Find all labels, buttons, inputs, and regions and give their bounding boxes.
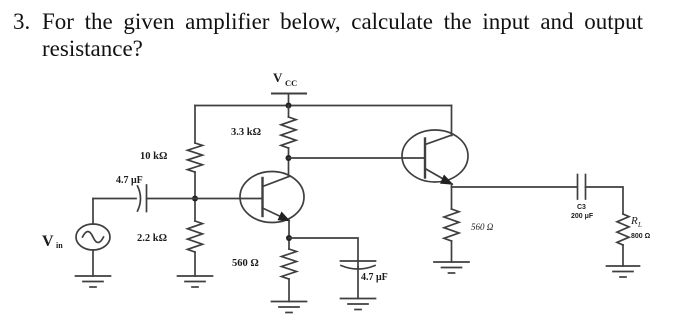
svg-text:L: L: [637, 221, 642, 229]
node: emitter junction dot: [286, 235, 292, 241]
wire rail to 3.3k: [288, 106, 290, 118]
svg-text:200 μF: 200 μF: [571, 213, 594, 220]
capacitor C1 4.7uF (input coupling): [138, 185, 147, 212]
sine wave inside Vin: [83, 232, 104, 243]
wire Vin bottom to ground: [92, 250, 94, 276]
ground (560 Q2): [434, 262, 469, 273]
resistor RL: [617, 214, 629, 245]
wire 10k to input junction to 2.2k: [194, 172, 196, 221]
wire 2.2k to ground: [194, 252, 196, 276]
svg-text:CC: CC: [285, 78, 297, 88]
ground (560 Q1): [272, 302, 307, 313]
transistor Q1: [240, 172, 304, 223]
ground (bypass cap): [341, 299, 376, 310]
wire RL to ground: [622, 245, 624, 266]
svg-text:R: R: [630, 215, 638, 227]
capacitor C2 4.7uF bypass: [341, 261, 376, 269]
resistor 2.2k: [188, 221, 203, 252]
resistor 10k: [188, 143, 203, 172]
wire emitter to bypass cap: [289, 238, 358, 261]
wire Q2 collector to rail: [451, 106, 453, 136]
wire cap to RL: [586, 187, 624, 214]
wire Q2 emitter down: [451, 184, 453, 209]
Vcc supply symbol: [272, 94, 306, 106]
label Vin: [42, 233, 63, 250]
Vcc label: [273, 70, 297, 88]
svg-text:C3: C3: [577, 204, 586, 211]
wire bypass cap to ground: [357, 267, 359, 299]
svg-text:3.3 kΩ: 3.3 kΩ: [231, 127, 261, 138]
ground (RL): [607, 266, 640, 277]
wire Q2 emitter to output cap: [452, 186, 578, 188]
node: input junction dot: [192, 196, 198, 202]
wire 560 Q2 to ground: [451, 241, 453, 262]
wire 560 to ground: [288, 279, 290, 302]
svg-text:560 Ω: 560 Ω: [232, 258, 259, 269]
wire rail to 10k: [194, 106, 196, 144]
node: collector junction dot: [286, 155, 292, 161]
ground (Vin): [76, 276, 111, 287]
resistor 560 (Q1 emitter): [282, 249, 297, 279]
wire Vin top: [92, 199, 94, 225]
svg-text:560 Ω: 560 Ω: [471, 222, 494, 232]
source Vin: [76, 224, 110, 250]
svg-text:in: in: [56, 241, 63, 250]
wire 3.3k to collector node: [288, 148, 290, 177]
wire capacitor to junction and Q1 base: [147, 198, 263, 200]
ground (2.2k): [178, 276, 213, 287]
svg-text:V: V: [273, 70, 283, 85]
svg-text:4.7 μF: 4.7 μF: [361, 272, 388, 283]
question text: [42, 9, 643, 63]
svg-text:4.7 μF: 4.7 μF: [116, 175, 143, 186]
svg-text:V: V: [42, 233, 54, 250]
svg-text:800 Ω: 800 Ω: [631, 233, 651, 240]
wire Q1 emitter down: [288, 221, 290, 250]
wire collector node to Q2 base: [289, 157, 426, 159]
label RL: [630, 215, 642, 229]
question number: [13, 9, 30, 36]
transistor Q2: [402, 130, 468, 185]
wire Vin to capacitor: [93, 198, 136, 200]
svg-text:2.2 kΩ: 2.2 kΩ: [137, 233, 167, 244]
resistor 560 (Q2 emitter): [444, 209, 459, 241]
resistor 3.3k: [281, 117, 296, 148]
svg-text:10 kΩ: 10 kΩ: [140, 151, 167, 162]
capacitor C3 200uF: [578, 175, 586, 200]
node: Vcc junction dot: [286, 103, 292, 109]
wire Vcc rail: [195, 105, 452, 107]
